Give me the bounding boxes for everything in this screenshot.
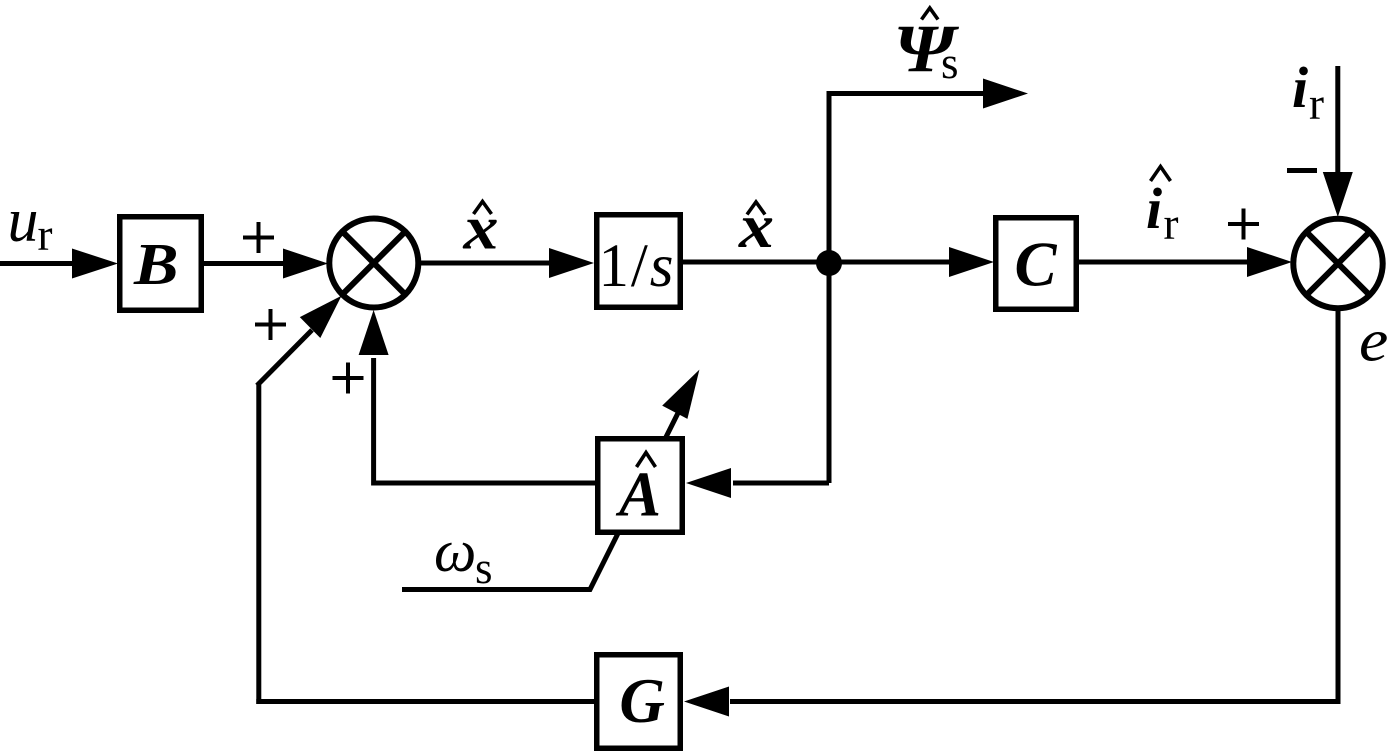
svg-text:ω: ω: [434, 518, 476, 584]
arrow into A-hat from right: [686, 468, 731, 498]
sum junction 2: [1293, 219, 1382, 308]
wire B to sum1: [204, 261, 288, 266]
svg-text:r: r: [1309, 79, 1324, 129]
wire 1/s to C: [683, 260, 953, 265]
svg-text:r: r: [38, 210, 53, 260]
arrow i_r into sum2 top: [1323, 172, 1353, 217]
arrow diagonal into sum1 lower-left: [300, 296, 342, 338]
svg-text:e: e: [1359, 307, 1387, 374]
sum2 cross: [1307, 232, 1370, 295]
wire node up and psi branch: [829, 94, 986, 484]
wire e down from sum2: [1336, 308, 1341, 699]
hat of x-hat 1: [474, 202, 492, 215]
svg-text:x: x: [462, 194, 498, 262]
svg-text:G: G: [619, 666, 665, 736]
arrow into B: [72, 249, 118, 279]
svg-text:B: B: [133, 232, 179, 298]
svg-text:i: i: [1146, 176, 1162, 241]
svg-text:C: C: [1015, 230, 1058, 300]
block A-hat: [598, 439, 683, 533]
wire G output left: [256, 699, 594, 704]
arrow psi_s output: [983, 79, 1028, 109]
arrow adjust through A-hat: [662, 370, 699, 419]
wire diagonal into sum1: [257, 330, 312, 386]
wire A-hat output left: [374, 358, 595, 483]
block C: [996, 218, 1077, 310]
arrow into sum2 from C: [1247, 247, 1292, 277]
svg-text:i: i: [1292, 55, 1308, 120]
hat of i-hat: [1151, 167, 1171, 182]
block B: [120, 217, 202, 311]
svg-text:A: A: [615, 460, 661, 530]
wire left vertical up: [256, 385, 261, 704]
plus sign above C output: [1228, 209, 1259, 240]
hat of psi-hat: [922, 8, 939, 20]
block 1/s: [597, 215, 681, 308]
arrow into 1/s: [549, 248, 594, 278]
plus sign left of vertical input: [333, 363, 364, 394]
wire C to sum2: [1079, 260, 1248, 265]
svg-text:u: u: [8, 187, 39, 255]
wire sum1 to 1/s: [419, 261, 554, 266]
svg-text:1/s: 1/s: [599, 233, 676, 300]
wire u_r input: [0, 261, 78, 266]
sum1 cross: [342, 232, 405, 295]
svg-text:s: s: [475, 543, 493, 593]
svg-text:x: x: [738, 193, 774, 261]
wire omega_s with diagonal through A-hat: [402, 411, 679, 590]
wire bottom right to G: [730, 699, 1341, 704]
minus sign left of i_r input: [1287, 168, 1317, 173]
node dot: [816, 250, 842, 276]
plus sign above B output: [243, 222, 274, 253]
arrow into sum1 from B: [283, 249, 328, 279]
svg-text:s: s: [941, 38, 959, 88]
block G: [597, 655, 681, 749]
wire psi vertical lower part: [827, 262, 832, 483]
wire i_r input vertical: [1335, 66, 1340, 176]
arrow into G: [684, 687, 729, 717]
plus sign left of diagonal input: [255, 309, 286, 340]
wire A-hat input horizontal: [733, 481, 829, 486]
hat inside A-hat block: [637, 453, 656, 468]
sum junction 1: [329, 219, 418, 308]
hat of x-hat 2: [747, 202, 765, 215]
arrow into C: [949, 247, 994, 277]
arrow vertical into sum1 bottom: [359, 310, 389, 355]
svg-text:r: r: [1164, 199, 1179, 249]
